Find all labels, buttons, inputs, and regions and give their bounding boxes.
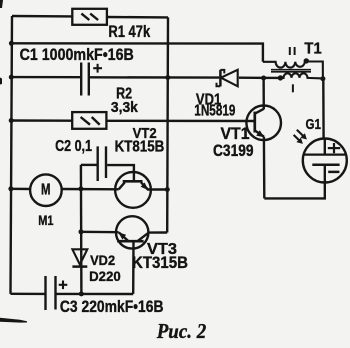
svg-text:C2 0,1: C2 0,1	[55, 138, 92, 155]
svg-text:G1: G1	[306, 117, 321, 133]
svg-text:Рис. 2: Рис. 2	[156, 319, 207, 343]
svg-text:T1: T1	[304, 41, 321, 58]
svg-text:3,3k: 3,3k	[111, 99, 139, 116]
svg-text:C3199: C3199	[213, 142, 254, 160]
svg-text:KT815B: KT815B	[115, 138, 165, 156]
svg-text:VD2: VD2	[90, 253, 115, 268]
svg-text:VT1: VT1	[221, 125, 250, 143]
svg-text:C1 1000mkF•16B: C1 1000mkF•16B	[20, 45, 134, 64]
svg-text:KT315B: KT315B	[132, 254, 188, 272]
svg-text:D220: D220	[89, 269, 121, 284]
svg-text:M1: M1	[38, 213, 53, 229]
svg-text:M: M	[41, 182, 51, 199]
svg-text:R1 47k: R1 47k	[108, 23, 150, 41]
svg-text:1N5819: 1N5819	[194, 102, 235, 119]
svg-text:C3 220mkF•16B: C3 220mkF•16B	[60, 297, 164, 316]
